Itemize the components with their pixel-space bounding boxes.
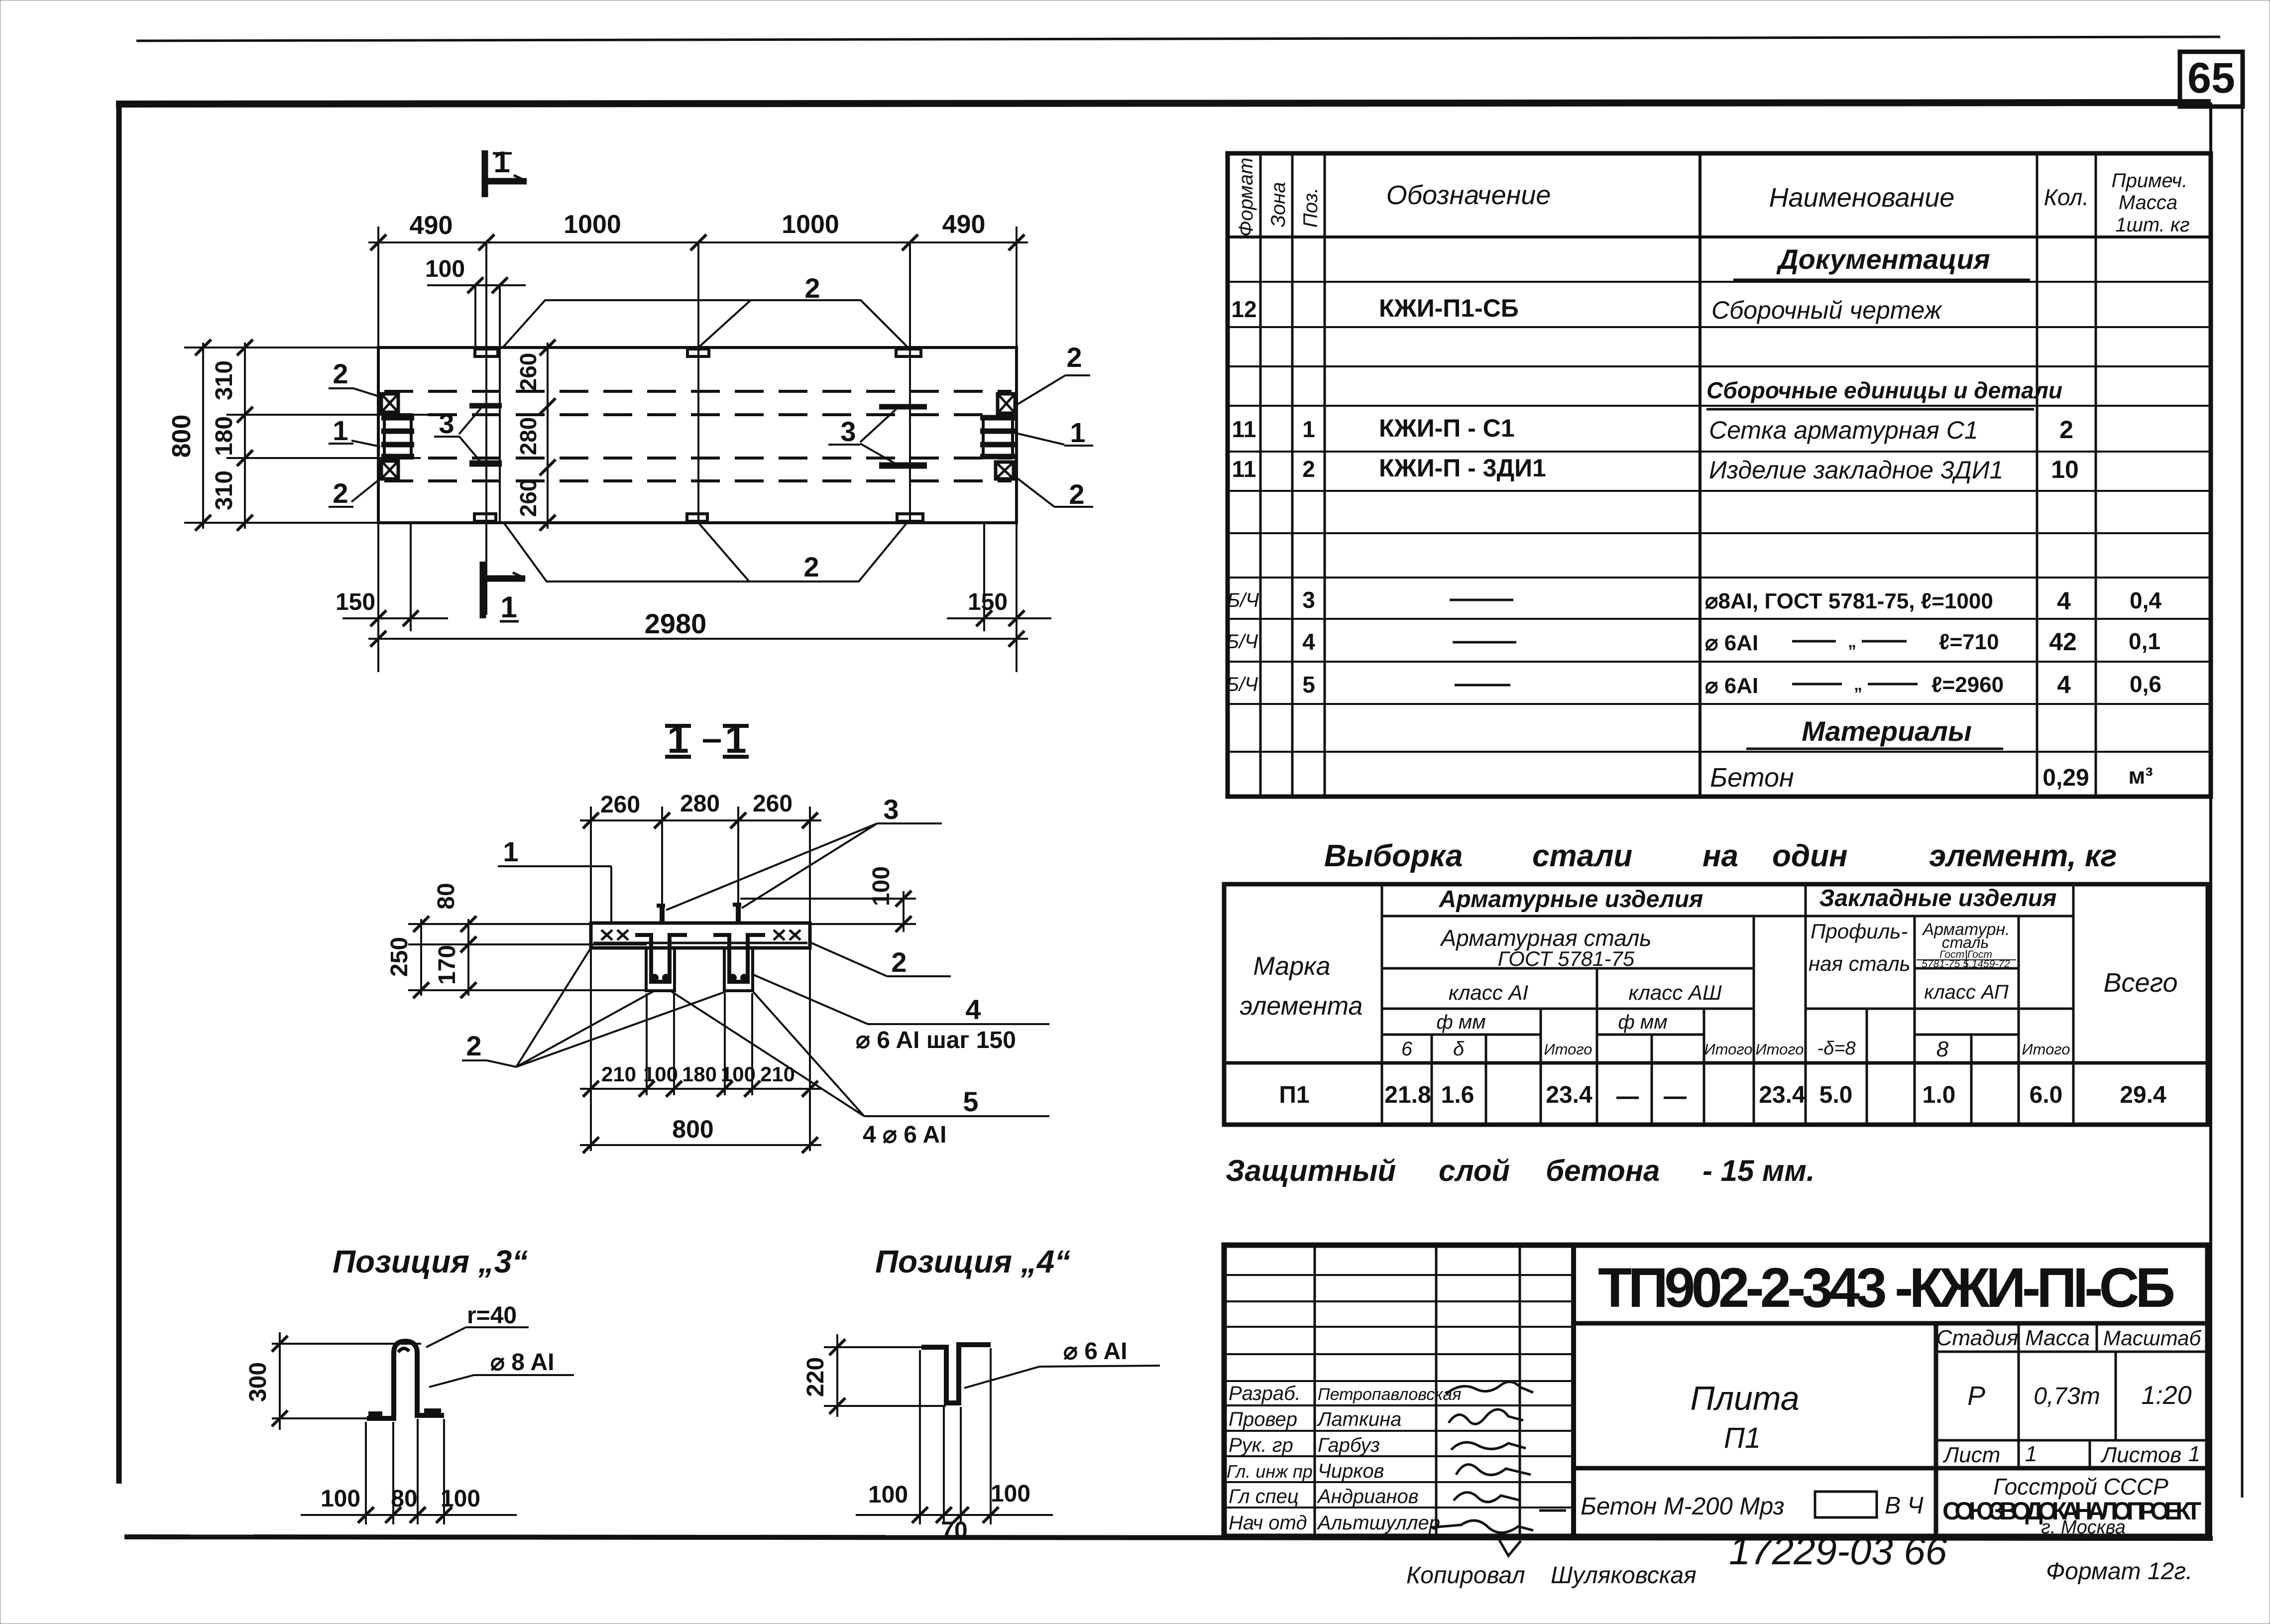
svg-text:4: 4 xyxy=(1302,629,1315,655)
svg-text:Плита: Плита xyxy=(1690,1380,1799,1417)
svg-text:П1: П1 xyxy=(1279,1082,1309,1108)
svg-text:Итого: Итого xyxy=(2022,1041,2070,1058)
spec header texts xyxy=(1235,158,2190,237)
svg-text:элемента: элемента xyxy=(1240,992,1363,1021)
svg-text:100: 100 xyxy=(868,866,895,906)
label 1 leader xyxy=(498,836,611,924)
section flag top xyxy=(482,145,527,197)
svg-text:Гл спец: Гл спец xyxy=(1229,1486,1299,1508)
svg-text:490: 490 xyxy=(942,210,986,239)
signature grid horizontals xyxy=(1224,1275,1574,1508)
plita cell xyxy=(1934,1323,1938,1536)
svg-text:5: 5 xyxy=(1302,672,1315,697)
svg-text:100: 100 xyxy=(868,1482,908,1508)
signature rows xyxy=(1227,1383,1461,1534)
pos3 r=40 label xyxy=(426,1302,529,1347)
svg-text:ф мм: ф мм xyxy=(1436,1011,1485,1033)
crossed square top left xyxy=(381,394,398,412)
svg-text:260: 260 xyxy=(515,479,541,517)
pos4 diameter label xyxy=(964,1338,1160,1388)
label 5 leader xyxy=(671,991,1049,1148)
svg-text:Позиция „3“: Позиция „3“ xyxy=(333,1244,528,1279)
dim 250 left xyxy=(386,916,429,998)
svg-text:260: 260 xyxy=(753,791,793,817)
top thin rule xyxy=(136,37,2220,41)
embed plate top right xyxy=(896,349,921,356)
svg-text:0,29: 0,29 xyxy=(2043,765,2089,791)
steel table grid xyxy=(1224,884,2208,1125)
svg-text:Шуляковская: Шуляковская xyxy=(1551,1562,1697,1589)
label 2 top left xyxy=(329,358,383,398)
svg-text:⌀ 6AI: ⌀ 6AI xyxy=(1705,674,1758,698)
section flag bottom xyxy=(483,562,525,624)
svg-text:Рук. гр: Рук. гр xyxy=(1229,1434,1293,1456)
pos3 bar marks right xyxy=(879,404,927,410)
svg-text:Гарбуз: Гарбуз xyxy=(1318,1434,1380,1456)
svg-text:100: 100 xyxy=(991,1481,1030,1507)
svg-text:2: 2 xyxy=(333,358,348,389)
svg-text:Профиль-: Профиль- xyxy=(1811,920,1908,943)
svg-text:Обозначение: Обозначение xyxy=(1386,180,1551,210)
svg-text:310: 310 xyxy=(211,360,237,400)
svg-text:2: 2 xyxy=(1066,342,1082,373)
svg-text:Закладные изделия: Закладные изделия xyxy=(1819,885,2057,912)
left rib bottom bars xyxy=(651,974,670,982)
svg-text:1: 1 xyxy=(2025,1442,2037,1466)
svg-text:Провер: Провер xyxy=(1229,1408,1297,1430)
svg-text:Формат: Формат xyxy=(1235,158,1257,237)
mesh C1 dashed line 1 xyxy=(384,390,1012,393)
mesh C1 dashed line 2 xyxy=(384,413,1012,416)
right rib bottom bars xyxy=(729,974,748,982)
svg-text:10: 10 xyxy=(2051,456,2079,483)
svg-text:ГОСТ 5781-75: ГОСТ 5781-75 xyxy=(1498,947,1635,970)
mesh C1 dashed line 3 xyxy=(384,457,1012,460)
dimension 150 left xyxy=(336,523,448,672)
svg-text:5: 5 xyxy=(963,1086,978,1117)
svg-text:слой: слой xyxy=(1439,1154,1510,1187)
svg-text:800: 800 xyxy=(167,415,196,458)
svg-text:Документация: Документация xyxy=(1776,243,1990,275)
frame bottom border xyxy=(124,1537,2213,1538)
svg-text:Итого: Итого xyxy=(1755,1041,1804,1058)
svg-text:Масса: Масса xyxy=(2119,192,2177,214)
row: pos 5 bar xyxy=(1226,671,2161,698)
pos4 bottom dims 100/70/100 xyxy=(856,1348,1053,1544)
svg-text:1шт. кг: 1шт. кг xyxy=(2115,214,2189,236)
svg-text:1: 1 xyxy=(2188,1442,2200,1466)
svg-text:В Ч: В Ч xyxy=(1885,1493,1924,1519)
svg-text:100: 100 xyxy=(441,1486,480,1512)
svg-text:100: 100 xyxy=(321,1486,360,1512)
doc number cell xyxy=(1574,1321,2208,1326)
signature scribbles xyxy=(1431,1382,1566,1556)
svg-text:2: 2 xyxy=(803,551,819,582)
svg-text:-δ=8: -δ=8 xyxy=(1817,1038,1855,1059)
bottom leader bracket pos2 xyxy=(504,523,907,581)
svg-text:6: 6 xyxy=(1401,1038,1413,1060)
svg-text:70: 70 xyxy=(941,1517,967,1544)
svg-text:180: 180 xyxy=(211,416,237,456)
axis line x=955 xyxy=(474,285,476,348)
svg-text:Примеч.: Примеч. xyxy=(2112,170,2188,192)
svg-text:4: 4 xyxy=(2057,587,2071,615)
svg-text:800: 800 xyxy=(672,1115,713,1143)
crossed square top right xyxy=(998,394,1015,413)
steel table title xyxy=(1324,839,2117,873)
top leader bracket pos2 xyxy=(503,300,908,348)
label 2 top right xyxy=(1018,342,1090,404)
svg-text:Лист: Лист xyxy=(1942,1443,2000,1467)
svg-text:Сборочные единицы и детали: Сборочные единицы и детали xyxy=(1706,377,2062,403)
svg-text:Нач отд: Нач отд xyxy=(1229,1512,1307,1534)
svg-text:Альтшуллер: Альтшуллер xyxy=(1317,1512,1440,1534)
pos3 bar shape xyxy=(367,1341,444,1418)
svg-text:0,6: 0,6 xyxy=(2130,671,2161,697)
row: КЖИ-П1-СБ xyxy=(1231,294,1942,324)
svg-text:П1: П1 xyxy=(1724,1422,1761,1454)
top dim 260/280/260 xyxy=(580,791,821,924)
frame left border xyxy=(116,101,122,1484)
bottom dim chain 210/100/180/100/210 xyxy=(580,944,821,1151)
svg-text:65: 65 xyxy=(2187,54,2235,102)
svg-text:Выборка: Выборка xyxy=(1324,839,1463,873)
svg-text:Арматурные изделия: Арматурные изделия xyxy=(1439,886,1703,913)
svg-text:280: 280 xyxy=(515,417,541,456)
svg-text:Масштаб: Масштаб xyxy=(2103,1326,2202,1350)
axis line x=1828 xyxy=(909,242,911,523)
list row xyxy=(1936,1440,2208,1468)
organization cell xyxy=(1942,1474,2201,1538)
svg-text:1.0: 1.0 xyxy=(1923,1082,1956,1108)
svg-text:210: 210 xyxy=(760,1062,795,1086)
dimension 150 right xyxy=(947,523,1051,672)
svg-text:3: 3 xyxy=(1302,587,1315,613)
svg-text:3: 3 xyxy=(883,794,899,825)
svg-text:1.6: 1.6 xyxy=(1441,1082,1475,1108)
svg-text:„: „ xyxy=(1848,632,1856,651)
svg-text:21.8: 21.8 xyxy=(1384,1082,1431,1108)
svg-text:1000: 1000 xyxy=(782,210,839,239)
svg-text:КЖИ-П1-СБ: КЖИ-П1-СБ xyxy=(1379,294,1519,322)
embed plate bottom right xyxy=(897,514,923,521)
svg-text:ℓ=2960: ℓ=2960 xyxy=(1931,673,2004,697)
row: КЖИ-П-ЗДИ1 xyxy=(1232,454,2079,484)
svg-text:⌀8AI, ГОСТ 5781-75, ℓ=1000: ⌀8AI, ГОСТ 5781-75, ℓ=1000 xyxy=(1705,589,1993,613)
svg-text:1: 1 xyxy=(500,590,517,624)
axis line x=1403 xyxy=(697,242,699,523)
svg-text:2: 2 xyxy=(1069,478,1084,510)
pos3 bar marks left xyxy=(469,403,502,409)
svg-text:8: 8 xyxy=(1936,1037,1949,1061)
axis line x=977 xyxy=(485,242,487,615)
slab outline xyxy=(378,348,1017,523)
band edge extension left xyxy=(227,414,440,416)
anchor ladder right xyxy=(980,416,1016,458)
svg-text:220: 220 xyxy=(802,1357,829,1397)
embed plate top left xyxy=(475,349,498,356)
svg-text:2: 2 xyxy=(891,946,907,978)
svg-text:Копировал: Копировал xyxy=(1406,1562,1525,1589)
svg-text:3: 3 xyxy=(840,416,856,447)
svg-text:1: 1 xyxy=(1070,417,1085,448)
title block outer box xyxy=(1224,1245,2208,1536)
pos3 dim 300 xyxy=(245,1332,421,1430)
dimension 2980 xyxy=(368,608,1028,647)
svg-text:δ: δ xyxy=(1453,1038,1465,1060)
pos3 bottom dims 100/80/100 xyxy=(301,1419,517,1524)
crossed square bottom right xyxy=(996,462,1014,479)
svg-text:Поз.: Поз. xyxy=(1300,188,1322,228)
svg-text:Стадия: Стадия xyxy=(1936,1326,2019,1350)
svg-text:5.0: 5.0 xyxy=(1819,1082,1853,1108)
svg-text:Б/Ч: Б/Ч xyxy=(1226,631,1258,653)
row: Материалы heading xyxy=(1746,715,2003,749)
steel data row xyxy=(1279,1082,2166,1108)
row: КЖИ-П-С1 xyxy=(1232,414,2073,444)
svg-text:Латкина: Латкина xyxy=(1316,1408,1401,1430)
axis line x=1004 xyxy=(499,285,501,523)
svg-text:42: 42 xyxy=(2049,628,2077,656)
label 3 leader xyxy=(666,794,942,910)
svg-text:„: „ xyxy=(1854,675,1862,694)
frame top border (thick) xyxy=(116,103,2211,104)
svg-text:Всего: Всего xyxy=(2103,968,2177,998)
svg-text:2: 2 xyxy=(466,1030,481,1061)
svg-text:150: 150 xyxy=(336,589,375,615)
svg-text:⌀ 8 AI: ⌀ 8 AI xyxy=(490,1349,554,1376)
svg-text:⌀ 6AI: ⌀ 6AI xyxy=(1705,631,1758,655)
pos4 dim 220 xyxy=(802,1334,946,1417)
svg-text:80: 80 xyxy=(391,1486,417,1512)
svg-text:0,73т: 0,73т xyxy=(2034,1383,2100,1409)
svg-text:Гл. инж пр.: Гл. инж пр. xyxy=(1227,1461,1318,1482)
svg-text:100: 100 xyxy=(643,1062,678,1086)
svg-text:Б/Ч: Б/Ч xyxy=(1226,674,1258,696)
svg-text:м³: м³ xyxy=(2128,763,2153,789)
svg-text:один: один xyxy=(1772,839,1848,873)
dim 100 right xyxy=(740,866,916,932)
label 2 bottom left xyxy=(329,477,379,509)
svg-text:Кол.: Кол. xyxy=(2044,184,2089,210)
svg-text:300: 300 xyxy=(245,1362,271,1402)
svg-text:Марка: Марка xyxy=(1253,952,1330,981)
svg-text:г. Москва: г. Москва xyxy=(2041,1517,2126,1538)
svg-text:150: 150 xyxy=(968,589,1008,615)
svg-text:Итого: Итого xyxy=(1544,1041,1592,1058)
svg-text:2: 2 xyxy=(1302,456,1315,482)
crossed square bottom left xyxy=(381,461,398,479)
embed plate top middle xyxy=(687,349,709,356)
svg-text:4 ⌀ 6 AI: 4 ⌀ 6 AI xyxy=(863,1122,947,1148)
anchor ladder left xyxy=(381,416,414,458)
label 3 left xyxy=(434,408,481,462)
svg-text:Зона: Зона xyxy=(1267,182,1289,227)
label 2 bottom right xyxy=(1016,477,1093,510)
spec table grid xyxy=(1228,153,2211,797)
svg-text:Госстрой СССР: Госстрой СССР xyxy=(1993,1474,2168,1500)
svg-text:210: 210 xyxy=(601,1062,636,1086)
svg-text:Сборочный чертеж: Сборочный чертеж xyxy=(1711,296,1943,324)
svg-text:Р: Р xyxy=(1967,1381,1985,1411)
svg-text:Защитный: Защитный xyxy=(1226,1154,1396,1187)
svg-text:0,4: 0,4 xyxy=(2130,587,2161,613)
label 3 right xyxy=(828,409,896,464)
svg-text:2980: 2980 xyxy=(645,608,707,639)
svg-text:Позиция „4“: Позиция „4“ xyxy=(875,1244,1070,1279)
svg-text:ℓ=710: ℓ=710 xyxy=(1939,630,1999,654)
svg-text:ф мм: ф мм xyxy=(1618,1011,1667,1033)
svg-text:1: 1 xyxy=(493,145,510,179)
svg-text:11: 11 xyxy=(1232,416,1256,442)
sheet number box 65 xyxy=(2180,52,2243,107)
svg-text:класс АП: класс АП xyxy=(1924,981,2009,1003)
svg-text:- 15 мм.: - 15 мм. xyxy=(1702,1154,1815,1187)
label 1 left xyxy=(329,415,380,447)
svg-text:Итого: Итого xyxy=(1704,1041,1752,1058)
svg-text:260: 260 xyxy=(515,353,541,391)
hook bar right in section xyxy=(733,903,741,924)
svg-text:Бетон М-200 Мрз: Бетон М-200 Мрз xyxy=(1581,1493,1785,1520)
beton cell xyxy=(1581,1492,1924,1520)
svg-text:Чирков: Чирков xyxy=(1318,1460,1384,1482)
label 1 right xyxy=(1012,417,1093,448)
svg-text:Бетон: Бетон xyxy=(1710,763,1794,793)
svg-text:Формат 12г.: Формат 12г. xyxy=(2046,1558,2192,1585)
svg-text:бетона: бетона xyxy=(1546,1154,1660,1187)
pos4 bar shape xyxy=(921,1345,991,1403)
mesh C1 dashed line 4 xyxy=(384,479,1012,482)
svg-text:Наименование: Наименование xyxy=(1769,183,1955,213)
hook bar left in section xyxy=(657,904,665,924)
svg-text:3: 3 xyxy=(439,408,454,439)
svg-text:4: 4 xyxy=(2057,671,2071,698)
svg-text:17229-03 66: 17229-03 66 xyxy=(1729,1529,1947,1573)
svg-text:Андрианов: Андрианов xyxy=(1317,1486,1419,1508)
svg-text:2: 2 xyxy=(804,272,820,304)
top dimension line 490/1000/1000/490 xyxy=(368,210,1028,348)
label 2 right leader xyxy=(811,943,951,978)
section title 1-1 xyxy=(665,717,749,761)
svg-text:1: 1 xyxy=(503,836,518,867)
row: pos 4 bar xyxy=(1226,628,2160,656)
svg-text:0,1: 0,1 xyxy=(2129,628,2160,654)
frame right outer rule xyxy=(2241,54,2244,1498)
svg-text:Б/Ч: Б/Ч xyxy=(1227,589,1259,611)
svg-text:класс АШ: класс АШ xyxy=(1628,981,1722,1004)
signature grid verticals xyxy=(1315,1245,1574,1536)
label 4 leader xyxy=(751,974,1049,1053)
svg-text:класс АI: класс АI xyxy=(1449,981,1529,1004)
dimension chain 310/180/310 xyxy=(211,340,253,531)
svg-text:Материалы: Материалы xyxy=(1802,715,1972,747)
svg-text:310: 310 xyxy=(211,470,237,510)
svg-text:180: 180 xyxy=(682,1062,717,1086)
flange outline xyxy=(591,923,810,948)
svg-text:на: на xyxy=(1702,839,1738,873)
svg-text:29.4: 29.4 xyxy=(2120,1082,2166,1108)
embed plate bottom left xyxy=(474,514,496,521)
svg-text:6.0: 6.0 xyxy=(2030,1082,2063,1108)
svg-text:23.4: 23.4 xyxy=(1546,1082,1592,1108)
svg-text:⌀ 6 AI: ⌀ 6 AI xyxy=(1063,1338,1127,1365)
svg-text:КЖИ-П - С1: КЖИ-П - С1 xyxy=(1379,414,1515,442)
left rib xyxy=(646,948,675,991)
svg-text:1: 1 xyxy=(333,415,348,446)
svg-text:490: 490 xyxy=(410,211,453,240)
cover note xyxy=(1226,1154,1815,1187)
svg-text:1:20: 1:20 xyxy=(2141,1381,2191,1410)
dimension chain 260/280/260 in plan xyxy=(515,340,556,531)
svg-text:Разраб.: Разраб. xyxy=(1229,1383,1301,1404)
mesh x-marks in flange xyxy=(601,930,800,940)
row: pos 3 bar xyxy=(1227,587,2161,615)
embed plate bottom middle xyxy=(687,514,707,521)
row: Сборочные единицы heading xyxy=(1706,377,2062,409)
svg-text:2: 2 xyxy=(2059,416,2073,444)
svg-text:ТП902-2-343 -КЖИ-ПI-СБ: ТП902-2-343 -КЖИ-ПI-СБ xyxy=(1598,1257,2175,1319)
svg-text:80: 80 xyxy=(433,883,459,909)
row: Бетон xyxy=(1710,763,2153,793)
pos3 diameter label xyxy=(429,1349,574,1387)
svg-text:Изделие закладное 3ДИ1: Изделие закладное 3ДИ1 xyxy=(1709,456,2003,484)
svg-text:250: 250 xyxy=(386,937,413,977)
svg-text:11: 11 xyxy=(1232,456,1256,482)
steel header texts xyxy=(1240,885,2178,1061)
svg-text:260: 260 xyxy=(600,792,640,818)
dim 80/170 left xyxy=(408,883,647,998)
svg-text:170: 170 xyxy=(434,945,460,985)
label 2 left leader xyxy=(462,945,727,1067)
right rib xyxy=(724,948,753,991)
svg-text:1: 1 xyxy=(1302,416,1315,442)
svg-text:2: 2 xyxy=(333,477,348,509)
svg-text:12: 12 xyxy=(1231,296,1256,322)
right rib stirrup with hooks xyxy=(713,935,765,982)
stadia massa masshtab header xyxy=(1936,1323,2208,1468)
svg-text:⌀ 6 AI шаг 150: ⌀ 6 AI шаг 150 xyxy=(856,1027,1016,1053)
svg-text:КЖИ-П - 3ДИ1: КЖИ-П - 3ДИ1 xyxy=(1379,454,1546,482)
bottom dim 800 xyxy=(580,1115,821,1153)
svg-text:100: 100 xyxy=(721,1062,756,1086)
svg-text:23.4: 23.4 xyxy=(1759,1082,1806,1108)
svg-text:1000: 1000 xyxy=(564,210,621,239)
svg-text:элемент, кг: элемент, кг xyxy=(1929,839,2117,873)
svg-text:Масса: Масса xyxy=(2025,1326,2090,1350)
svg-text:Сетка арматурная С1: Сетка арматурная С1 xyxy=(1709,416,1978,444)
svg-text:Петропавловская: Петропавловская xyxy=(1318,1385,1461,1404)
svg-text:ная сталь: ная сталь xyxy=(1809,952,1911,975)
svg-text:280: 280 xyxy=(680,791,720,817)
dimension 100 xyxy=(425,256,526,293)
svg-text:Листов: Листов xyxy=(2100,1443,2181,1467)
frame right border inner xyxy=(2209,103,2212,1538)
row: Документация heading xyxy=(1733,243,2030,280)
left rib stirrup with hooks xyxy=(635,935,687,982)
svg-text:100: 100 xyxy=(425,256,465,282)
dimension 800 left xyxy=(167,340,378,531)
svg-text:r=40: r=40 xyxy=(467,1302,517,1329)
svg-text:4: 4 xyxy=(965,994,981,1025)
svg-text:стали: стали xyxy=(1532,839,1632,873)
